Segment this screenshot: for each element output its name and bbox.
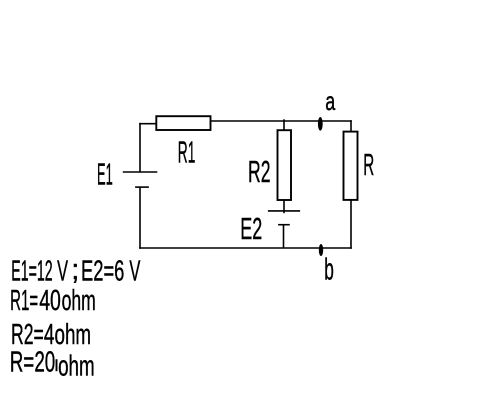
- svg-text:V: V: [57, 256, 68, 288]
- svg-text:R1: R1: [178, 135, 196, 170]
- svg-text:R: R: [363, 147, 374, 182]
- svg-text:a: a: [325, 86, 335, 116]
- svg-text:R1=: R1=: [10, 285, 38, 317]
- svg-text:E1: E1: [97, 157, 113, 192]
- svg-text:ohm: ohm: [58, 350, 95, 382]
- svg-text:b: b: [324, 251, 334, 286]
- svg-text:ohm: ohm: [62, 285, 96, 317]
- svg-text:E2: E2: [240, 211, 262, 246]
- svg-text:R2: R2: [248, 154, 271, 189]
- svg-text:40: 40: [39, 285, 61, 317]
- svg-text:;: ;: [71, 254, 79, 286]
- svg-text:V: V: [129, 256, 140, 288]
- svg-text:E1=12: E1=12: [11, 256, 52, 288]
- svg-text:ohm: ohm: [55, 319, 92, 351]
- svg-text:R=20: R=20: [10, 347, 56, 379]
- svg-text:E2=6: E2=6: [81, 256, 124, 288]
